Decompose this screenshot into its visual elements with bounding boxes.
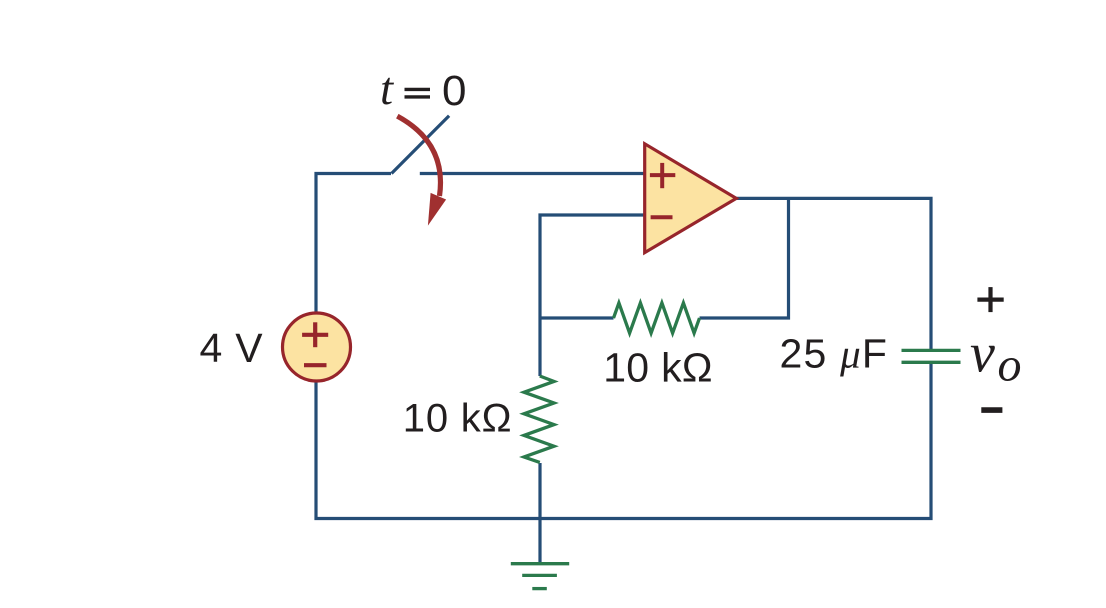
svg-text:4 V: 4 V — [200, 325, 264, 371]
svg-text:o: o — [998, 339, 1022, 392]
svg-text:10 kΩ: 10 kΩ — [603, 345, 713, 391]
svg-text:0: 0 — [442, 67, 467, 115]
svg-text:10 kΩ: 10 kΩ — [403, 397, 513, 441]
svg-text:25 μF: 25 μF — [780, 331, 889, 377]
svg-text:v: v — [970, 322, 995, 384]
svg-text:t: t — [380, 63, 394, 115]
